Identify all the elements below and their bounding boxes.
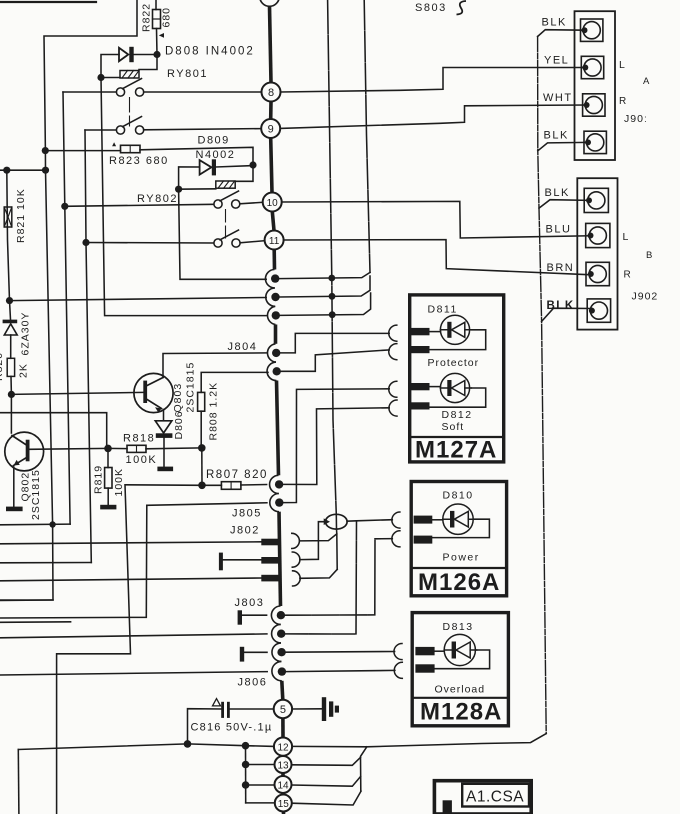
wire BRN from node 11 bbox=[284, 240, 591, 275]
switch RY801a bbox=[63, 79, 261, 127]
wire BLU from node 10 bbox=[282, 201, 591, 238]
socket arc M127A-4 bbox=[389, 400, 397, 416]
bus segment below 15 bbox=[282, 812, 286, 814]
wire J803 b left to edge bbox=[0, 634, 267, 638]
wire Q803 collector to J804 D bbox=[163, 353, 267, 378]
scallop arc J804 E bbox=[267, 362, 276, 380]
svg-text:J804: J804 bbox=[228, 341, 258, 353]
wire J804 C right to V2 bbox=[280, 293, 371, 315]
scallop arc J804 B bbox=[266, 288, 275, 306]
wire D808 anode to x101 rail bbox=[101, 55, 119, 78]
wire R823 right to D809 node bbox=[140, 147, 253, 165]
junction dot J806 b bbox=[278, 667, 286, 675]
scallop arc J804 C bbox=[267, 306, 275, 324]
junction dot D808 cathode node bbox=[153, 51, 160, 58]
wire D811 loop to pin2 bbox=[430, 330, 486, 350]
wire V1 through ellipse down bbox=[335, 515, 338, 570]
module pin M128A-1 bbox=[415, 647, 434, 655]
module box A1.CSA bbox=[434, 781, 531, 814]
svg-text:15: 15 bbox=[278, 799, 290, 810]
wire M127A pin4 to J805 a bbox=[283, 408, 389, 485]
node 5 bbox=[274, 700, 292, 718]
diode D808 bbox=[119, 47, 134, 62]
wire pin1 to D811 bbox=[430, 331, 441, 333]
pad J901-4 bbox=[584, 131, 606, 153]
wire left edge stub y622 bbox=[0, 621, 71, 624]
scallop arc J804 A bbox=[265, 270, 274, 288]
svg-text:R821 10K: R821 10K bbox=[15, 188, 27, 243]
svg-text:N4002: N4002 bbox=[196, 149, 236, 161]
bus segment top to 8 bbox=[270, 6, 272, 82]
wire D809 cathode to node bbox=[216, 166, 253, 167]
wire C816 left down to bottom rail bbox=[188, 709, 223, 744]
junction dot R807 left node bbox=[198, 482, 206, 490]
wire BLK1 to ground bus bbox=[538, 30, 585, 37]
wire y170 to left edge bbox=[0, 169, 46, 171]
wire node 13 right diagonal bbox=[292, 757, 361, 765]
wire pin1 to D813 bbox=[435, 650, 445, 652]
numbered bus circles bbox=[261, 83, 292, 812]
svg-text:2SC1815: 2SC1815 bbox=[185, 362, 197, 413]
wire node down to R807 node bbox=[201, 448, 203, 485]
svg-text:14: 14 bbox=[277, 781, 289, 792]
wire vertical V1 bbox=[328, 0, 337, 515]
pad J902-2 bbox=[586, 223, 610, 247]
svg-text:Power: Power bbox=[443, 552, 480, 564]
wire J805 b left bbox=[147, 503, 267, 506]
socket arc M128A-2 bbox=[394, 662, 402, 678]
svg-text:6ZA30Y: 6ZA30Y bbox=[20, 312, 32, 356]
socket arc J802-2 bbox=[292, 552, 300, 567]
svg-text:B: B bbox=[646, 250, 653, 261]
module pin M127A-1 bbox=[410, 328, 429, 335]
svg-text:R808 1.2K: R808 1.2K bbox=[208, 382, 220, 441]
wire Q803 base from node bbox=[11, 392, 143, 394]
arrow into ellipse bbox=[324, 518, 330, 525]
wire node down to RY802 coil right bbox=[235, 165, 253, 181]
socket arc M127A-2 bbox=[389, 344, 397, 360]
wire J806 b left to edge bbox=[0, 672, 267, 675]
ground bus vertical right bbox=[538, 37, 547, 734]
wire R808 top to J804 E bbox=[201, 372, 268, 392]
switch RY802b bbox=[86, 230, 265, 247]
svg-text:11: 11 bbox=[269, 236, 280, 247]
node 12 bbox=[274, 738, 292, 756]
svg-text:C816 50V-.1µ: C816 50V-.1µ bbox=[191, 722, 273, 734]
wire R822 top to edge bbox=[155, 0, 157, 10]
wire J804 D right to M127A pin1 bbox=[280, 333, 389, 353]
svg-text:D809: D809 bbox=[198, 135, 230, 147]
scallop arc J806 a bbox=[272, 643, 281, 662]
wire merge leg verticals 13-15 bbox=[361, 747, 367, 791]
wire BLK4 to ground bus bbox=[542, 308, 592, 321]
junction dot YEL pad bbox=[582, 65, 588, 71]
photodiode D813 bbox=[444, 634, 477, 665]
transistor Q802 bbox=[5, 432, 44, 471]
svg-text:M128A: M128A bbox=[420, 699, 502, 726]
wire left edge y562 from RY801b rail bbox=[0, 562, 91, 564]
node 14 bbox=[275, 776, 292, 793]
wire J806 b right to M128A pin2 bbox=[286, 670, 395, 671]
wire coil left to rail bbox=[101, 77, 120, 79]
junction dot J805 a bbox=[275, 480, 283, 488]
ground bar below R819 bbox=[100, 505, 116, 510]
junction dot J902-3 pad bbox=[588, 271, 594, 277]
wire D813 loop to pin2 bbox=[435, 650, 490, 669]
socket arc M127A-1 bbox=[389, 325, 397, 341]
svg-text:8: 8 bbox=[268, 87, 274, 99]
wire vertical V2 bbox=[364, 0, 370, 272]
wire R807 right to J805 a bbox=[241, 484, 267, 487]
bus segment J804C to J804D bbox=[274, 325, 278, 344]
svg-text:D812: D812 bbox=[442, 409, 473, 421]
socket arc M127A-3 bbox=[389, 381, 397, 397]
scallop arc J804 D bbox=[267, 344, 276, 362]
svg-text:R: R bbox=[624, 270, 632, 281]
node 11 bbox=[265, 231, 284, 250]
junction dot J902-1 pad bbox=[586, 197, 592, 203]
pad J901-2 bbox=[581, 56, 603, 78]
svg-text:WHT: WHT bbox=[543, 92, 573, 104]
socket arc J802-3 bbox=[293, 571, 301, 586]
wire x245 down leg bbox=[245, 746, 247, 803]
resistor R808 bbox=[198, 392, 205, 411]
connector pin bar J802-2 bbox=[261, 557, 281, 564]
zener D-6ZA30Y bbox=[3, 315, 18, 335]
junction dot WHT pad bbox=[584, 102, 590, 108]
junction dot rail x245 bbox=[242, 742, 250, 750]
scallop arc J803 a bbox=[271, 606, 280, 624]
svg-text:D811: D811 bbox=[428, 304, 458, 316]
svg-text:100K: 100K bbox=[126, 454, 158, 466]
svg-text:R: R bbox=[619, 96, 627, 107]
junction dot R808/R818 node bbox=[198, 444, 206, 452]
junction dot J804 B bbox=[271, 293, 279, 301]
stub plate J806-a bbox=[240, 647, 244, 662]
junction dot J806 a bbox=[277, 648, 285, 656]
svg-text:Overload: Overload bbox=[435, 684, 486, 696]
pad J901-3 bbox=[583, 94, 605, 116]
junction dot RY801 coil left bbox=[97, 74, 104, 81]
wire left edge y600 from x53 rail bbox=[0, 599, 53, 602]
junction dot x52 y524 bbox=[49, 521, 55, 527]
junction dot J804 D bbox=[272, 349, 280, 357]
junction dot zener top bbox=[6, 297, 13, 304]
junction dot R819 top node bbox=[104, 445, 112, 453]
wire WHT from node 9 bbox=[280, 105, 586, 128]
wire x101 rail down to J804 C feed bbox=[101, 78, 266, 316]
ground bar below Q802 bbox=[6, 507, 23, 512]
junction dot J803 a bbox=[277, 611, 285, 619]
wire J804 E right to M127A pin2 bbox=[281, 350, 389, 371]
svg-text:5: 5 bbox=[280, 704, 286, 716]
relay coil RY801 bbox=[120, 71, 139, 79]
junction dot J804 C bbox=[272, 311, 280, 319]
wire plate to J803 a arc bbox=[242, 614, 267, 616]
wire bottom rail left leg bbox=[17, 750, 20, 814]
scallops J804 bbox=[265, 270, 281, 681]
junction dot V1 x wireC bbox=[329, 311, 336, 318]
connector body J902 bbox=[577, 178, 617, 329]
wire D806 to ground bbox=[163, 438, 165, 467]
junction dot J902-4 pad bbox=[589, 308, 595, 314]
stub plate J803-a bbox=[238, 610, 242, 624]
connector body J901 bbox=[575, 11, 616, 160]
bus segment 12-13 bbox=[281, 754, 285, 758]
junction dot J803 b bbox=[277, 630, 285, 638]
wire J803 b up to tee bbox=[285, 521, 356, 634]
wire YEL from node 8 bbox=[281, 68, 586, 93]
svg-text:A: A bbox=[643, 76, 650, 87]
scallop arc J803 b bbox=[272, 624, 281, 643]
resistor R822 bbox=[153, 10, 161, 29]
wire D812 loop to pin4 bbox=[430, 388, 486, 407]
wire J802-2 arc up to ellipse wire bbox=[300, 522, 326, 560]
node 13 bbox=[275, 756, 292, 773]
svg-text:A1.CSA: A1.CSA bbox=[466, 789, 524, 806]
photodiode D812 bbox=[440, 373, 471, 402]
wire Q802 emitter to ground bbox=[13, 467, 15, 507]
wire D810 loop to pin2 bbox=[432, 519, 489, 537]
svg-text:R819: R819 bbox=[93, 465, 105, 494]
wire R822 bottom to D808 node bbox=[156, 29, 159, 55]
svg-text:D808 IN4002: D808 IN4002 bbox=[165, 46, 255, 58]
svg-text:Q803: Q803 bbox=[172, 383, 184, 413]
wire rail RY802 node down to J804 A bbox=[179, 189, 267, 279]
wire rail x85 from RY801b down bbox=[85, 130, 91, 563]
svg-text:J802: J802 bbox=[230, 525, 260, 537]
switch RY801b bbox=[85, 117, 261, 135]
wire R820 bottom to node bbox=[10, 376, 12, 394]
svg-text:BRN: BRN bbox=[547, 262, 575, 274]
module box M126A bbox=[411, 482, 506, 596]
diode D809 bbox=[200, 159, 216, 175]
bus segment 10 to 11 bbox=[272, 212, 274, 231]
stub plate J802-2 bbox=[219, 553, 223, 571]
svg-text:Protector: Protector bbox=[428, 357, 480, 369]
wire J803 a right up to M126A pin2 bbox=[285, 539, 392, 616]
wire node 15 right diagonal bbox=[292, 791, 361, 805]
wire pin3 to D812 bbox=[430, 386, 441, 388]
module pin M126A-2 bbox=[414, 536, 433, 544]
junction dot node y170 right bbox=[42, 167, 49, 174]
junction dot D809 cathode node bbox=[249, 161, 256, 168]
wire leg to node 13 bbox=[246, 764, 275, 766]
bus segment 14-15 bbox=[281, 793, 285, 795]
junction dot J804 E bbox=[273, 367, 281, 375]
capacitor C816 bbox=[213, 699, 229, 717]
wire C816 right to node 5 bbox=[228, 708, 273, 710]
bus segment 8 to 9 bbox=[269, 102, 273, 120]
wire R818 right to node bbox=[146, 447, 202, 450]
svg-text:BLK: BLK bbox=[547, 300, 575, 312]
node 9 bbox=[261, 119, 280, 138]
resistor R823 bbox=[121, 145, 141, 152]
switch RY802a bbox=[65, 191, 263, 238]
svg-text:J902: J902 bbox=[632, 291, 659, 303]
wire R807 node left and down bbox=[57, 485, 202, 814]
svg-text:D810: D810 bbox=[443, 490, 474, 502]
wire R819 bottom to ground bbox=[107, 488, 109, 504]
junction dot Q802 collector node bbox=[8, 391, 15, 398]
junction dot BLK1 pad bbox=[582, 27, 588, 33]
wire zener node to J804 B bbox=[10, 298, 267, 301]
svg-text:RY802: RY802 bbox=[137, 193, 178, 205]
module box M128A bbox=[412, 613, 508, 726]
ground bar below D806 bbox=[157, 467, 173, 472]
wire BLK2 to ground bus bbox=[538, 142, 588, 150]
junction dot J902-2 pad bbox=[588, 233, 594, 239]
wire boundary from node 12 right with diagonal up bbox=[292, 734, 546, 747]
wire bottom rail horizontal bbox=[18, 744, 274, 750]
socket arc M126A-1 bbox=[392, 512, 400, 528]
junction dot leg node13 bbox=[242, 761, 250, 769]
wire R823 left bbox=[45, 150, 120, 152]
wire left rail x9 zener/R820 string bbox=[7, 170, 11, 319]
scallop arc J805 a bbox=[270, 475, 279, 493]
wire BLK3 to ground bus bbox=[539, 200, 589, 209]
junction dot V1 x wireB bbox=[329, 293, 336, 300]
junction dot RY802b left bbox=[82, 239, 89, 246]
socket arc M128A-1 bbox=[394, 644, 402, 660]
svg-text:R818: R818 bbox=[123, 433, 155, 445]
junction dot J805 b bbox=[275, 498, 283, 506]
resistor R820 bbox=[7, 358, 14, 376]
wire R807 left bbox=[202, 484, 221, 486]
pad J902-3 bbox=[586, 262, 609, 285]
resistor R807 bbox=[221, 482, 241, 490]
resistor R819 bbox=[105, 468, 112, 489]
wire leg to node 15 bbox=[246, 802, 275, 804]
svg-text:BLK: BLK bbox=[545, 187, 570, 199]
svg-text:J90:: J90: bbox=[624, 113, 648, 125]
svg-text:S803: S803 bbox=[415, 2, 447, 14]
svg-text:J803: J803 bbox=[235, 597, 265, 609]
bracket S803 bbox=[457, 1, 467, 15]
module pin M127A-4 bbox=[410, 402, 429, 409]
bus segment J806 to circle5 bbox=[282, 681, 283, 700]
connector pin bar J802-1 bbox=[261, 539, 281, 546]
wire from left edge y412 down to node bbox=[0, 413, 107, 449]
wire node to Q802 collector bbox=[10, 394, 12, 433]
wire Q802 base right bbox=[30, 447, 109, 450]
svg-text:BLU: BLU bbox=[546, 224, 572, 236]
wire J802-3 arc to V1 bbox=[300, 569, 337, 578]
junction dot RY802a left bbox=[61, 203, 68, 210]
junction dot V1 x wireA bbox=[328, 275, 335, 282]
svg-text:D813: D813 bbox=[443, 621, 474, 633]
pad J902-1 bbox=[584, 188, 608, 212]
svg-text:10: 10 bbox=[267, 198, 279, 209]
diode D806 bbox=[155, 421, 172, 438]
junction dot leg node14 bbox=[242, 781, 250, 789]
svg-text:J805: J805 bbox=[232, 508, 262, 520]
node circle top cut bbox=[260, 0, 280, 6]
connector pin bar J802-3 bbox=[261, 575, 281, 582]
wire top edge horizontal bbox=[0, 1, 96, 3]
wire corner path from top via x137 to x45 bbox=[0, 0, 137, 600]
svg-text:12: 12 bbox=[277, 743, 289, 754]
bus segment 13-14 bbox=[281, 773, 285, 776]
node 15 bbox=[275, 795, 292, 812]
wire R808 bottom to node bbox=[200, 411, 202, 448]
wire zener to R820 bbox=[10, 335, 12, 358]
wire ellipse to M126A pin1 tee bbox=[347, 520, 392, 522]
bus segment 9 to 10 bbox=[271, 138, 272, 193]
svg-text:13: 13 bbox=[277, 761, 289, 772]
wire J802-1 arc to V1 bbox=[300, 534, 337, 541]
socket arc J802-1 bbox=[292, 533, 300, 548]
svg-text:680: 680 bbox=[161, 7, 173, 28]
wire J804 A right to V2 bbox=[279, 272, 370, 278]
svg-text:9: 9 bbox=[268, 124, 274, 136]
svg-text:M126A: M126A bbox=[418, 569, 500, 596]
wire node 5 to ground bbox=[292, 708, 322, 710]
svg-text:D806: D806 bbox=[173, 410, 185, 439]
pad J902-4 bbox=[587, 299, 610, 322]
module box M127A bbox=[410, 295, 504, 462]
wire pin1 to D810 bbox=[432, 519, 443, 521]
wire J806 a right to M128A pin1 bbox=[286, 651, 395, 654]
node 8 bbox=[262, 83, 281, 102]
pad J901-1 bbox=[581, 19, 603, 41]
relay coil RY802 bbox=[216, 181, 235, 188]
wire rail x63 from RY801a down bbox=[63, 92, 70, 524]
module pin M127A-2 bbox=[410, 346, 429, 353]
svg-text:2K: 2K bbox=[18, 363, 30, 378]
svg-text:RY801: RY801 bbox=[167, 68, 208, 80]
wire left edge y617 from J805 b rail bbox=[0, 505, 147, 618]
photodiode D810 bbox=[443, 504, 475, 534]
wire J804 B right to V2 bbox=[280, 276, 370, 297]
svg-text:R807 820: R807 820 bbox=[206, 469, 268, 481]
wire J802-3 left to edge bbox=[0, 578, 261, 581]
wire M127A pin3 to J805 b bbox=[284, 389, 390, 503]
svg-text:J806: J806 bbox=[238, 677, 268, 689]
photodiode D811 bbox=[440, 315, 471, 344]
svg-text:M127A: M127A bbox=[415, 437, 497, 464]
wire node 14 right diagonal bbox=[292, 777, 361, 787]
node 10 bbox=[263, 193, 282, 212]
module pin M128A-2 bbox=[415, 664, 434, 672]
polarity arrow at R823 bbox=[112, 142, 116, 146]
junction dot C816 rail bbox=[184, 740, 192, 748]
scallop arc J806 b bbox=[272, 661, 282, 680]
resistor R818 bbox=[127, 445, 146, 452]
wire left edge y524 from RY801a rail bbox=[0, 523, 70, 526]
wire Q803 emitter to D806 bbox=[163, 410, 165, 421]
svg-text:YEL: YEL bbox=[544, 55, 569, 67]
svg-text:2SC1815: 2SC1815 bbox=[30, 469, 42, 520]
junction dot BLK2 pad bbox=[585, 139, 591, 145]
svg-text:Soft: Soft bbox=[442, 421, 465, 433]
svg-text:100K: 100K bbox=[113, 468, 125, 497]
wire leg to node 14 bbox=[246, 784, 275, 786]
svg-text:L: L bbox=[619, 59, 626, 71]
transistor Q803 bbox=[134, 373, 173, 412]
wire D809 anode to rail bbox=[179, 167, 200, 189]
scallop arc J805 b bbox=[270, 494, 279, 512]
wire R818 left to Q802 base node bbox=[108, 447, 127, 449]
bus segment circle5 to 12 bbox=[281, 718, 285, 737]
socket arc M126A-2 bbox=[392, 531, 400, 547]
svg-text:R820: R820 bbox=[0, 352, 5, 381]
ground bars right of node 5 bbox=[322, 697, 339, 721]
junction dot node R823 feed bbox=[42, 147, 49, 154]
wire plate to J806 a arc bbox=[244, 651, 267, 653]
svg-text:L: L bbox=[623, 231, 630, 243]
junction dot y170 left bbox=[3, 167, 10, 174]
